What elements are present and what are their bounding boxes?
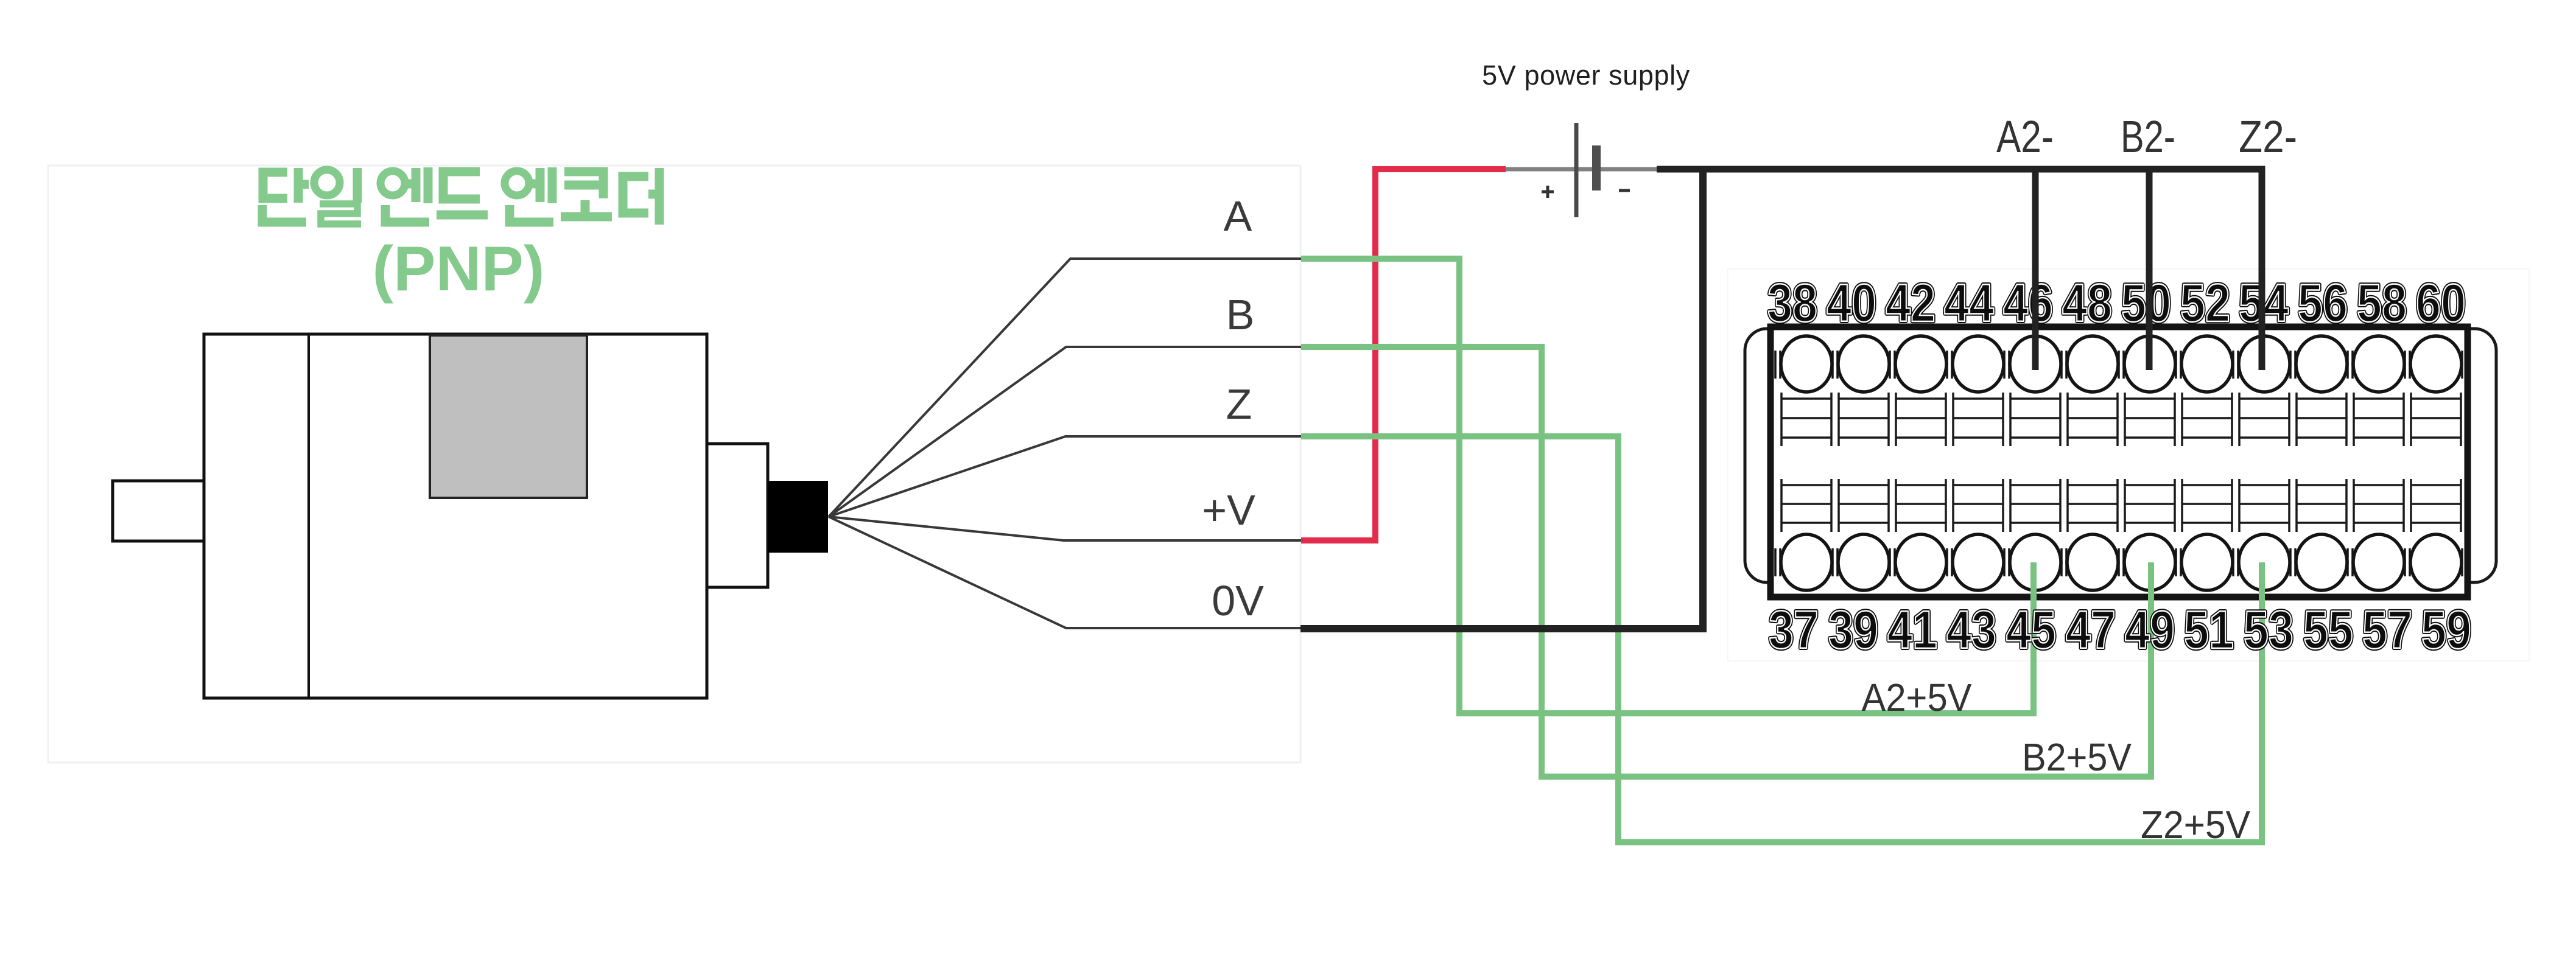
- connector image faint border: [1728, 269, 2529, 661]
- svg-text:B2-: B2-: [2121, 111, 2175, 162]
- wire B lead: [829, 347, 1301, 517]
- svg-text:Z2+5V: Z2+5V: [2141, 803, 2250, 847]
- svg-text:55: 55: [2303, 599, 2353, 660]
- connector main body: [1771, 327, 2468, 597]
- encoder body: [204, 334, 707, 698]
- svg-text:38: 38: [1767, 273, 1817, 333]
- svg-text:(PNP): (PNP): [372, 234, 544, 304]
- connector pin circles top row (pins 38-60): [1781, 336, 2462, 392]
- svg-text:48: 48: [2062, 273, 2112, 333]
- svg-text:37: 37: [1769, 599, 1819, 660]
- svg-text:A2+5V: A2+5V: [1862, 676, 1972, 719]
- svg-text:59: 59: [2421, 599, 2471, 660]
- svg-text:A2-: A2-: [1996, 111, 2054, 162]
- encoder body divider: [307, 334, 310, 698]
- encoder gray label block: [430, 335, 587, 498]
- svg-text:51: 51: [2184, 599, 2234, 660]
- encoder cable connector (black): [768, 481, 828, 553]
- svg-text:B2+5V: B2+5V: [2022, 735, 2132, 779]
- connector outer ears (rounded): [1745, 329, 2496, 582]
- wire Z (green) encoder Z to pin 53: [1301, 436, 2262, 842]
- svg-text:58: 58: [2357, 273, 2407, 333]
- wire A lead: [829, 259, 1301, 517]
- wire A (green) encoder A to pin 45: [1301, 259, 2034, 713]
- svg-text:60: 60: [2416, 273, 2466, 333]
- svg-text:5V power supply: 5V power supply: [1482, 60, 1690, 91]
- svg-text:53: 53: [2244, 599, 2293, 660]
- wire Z lead: [829, 436, 1301, 517]
- wire +V (red) to battery plus: [1301, 169, 1506, 540]
- encoder rear flange: [707, 444, 768, 587]
- svg-text:45: 45: [2006, 599, 2056, 660]
- connector spring-clamp ladders: [1781, 393, 2461, 532]
- encoder image faint border: [48, 166, 1300, 763]
- svg-text:40: 40: [1827, 273, 1876, 333]
- svg-text:56: 56: [2298, 273, 2348, 333]
- battery negative plate: [1592, 145, 1601, 190]
- svg-text:Z: Z: [1226, 380, 1252, 428]
- svg-text:0V: 0V: [1212, 577, 1264, 624]
- svg-text:41: 41: [1887, 599, 1937, 660]
- svg-text:43: 43: [1946, 599, 1996, 660]
- battery minus sign: [1619, 189, 1630, 192]
- svg-text:44: 44: [1944, 273, 1994, 333]
- encoder shaft: [113, 481, 204, 541]
- battery positive plate: [1574, 123, 1579, 217]
- wire 0V lead: [829, 517, 1301, 628]
- connector tangent bars: [1775, 351, 2467, 576]
- svg-text:52: 52: [2180, 273, 2230, 333]
- svg-text:39: 39: [1828, 599, 1878, 660]
- wire A2- to pin 46: [2032, 169, 2039, 370]
- svg-text:Z2-: Z2-: [2239, 111, 2297, 162]
- battery plus sign: [1542, 186, 1554, 198]
- title Korean line 1: 단일 엔드 엔코더: [262, 167, 659, 225]
- svg-text:B: B: [1226, 291, 1255, 338]
- svg-text:42: 42: [1886, 273, 1936, 333]
- svg-text:46: 46: [2003, 273, 2053, 333]
- svg-text:47: 47: [2066, 599, 2116, 660]
- svg-text:49: 49: [2125, 599, 2175, 660]
- wire 0V (black) to battery minus: [1300, 169, 1703, 629]
- wire +V lead: [829, 517, 1301, 540]
- connector pin circles bottom row (pins 37-59): [1781, 534, 2462, 590]
- wire B2- to pin 50: [2146, 169, 2153, 370]
- svg-text:57: 57: [2362, 599, 2412, 660]
- battery lead wires: [1506, 167, 1657, 172]
- wire B (green) encoder B to pin 49: [1301, 347, 2151, 777]
- pin numbers top row 38-60: [1767, 273, 2466, 333]
- svg-text:+V: +V: [1202, 486, 1255, 534]
- svg-text:A: A: [1224, 192, 1252, 240]
- black bus battery minus to Z2-: [1657, 169, 2262, 370]
- pin numbers bottom row 37-59: [1769, 599, 2471, 660]
